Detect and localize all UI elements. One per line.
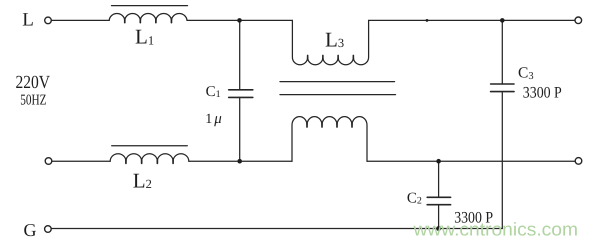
svg-text:1μ: 1μ: [205, 111, 222, 127]
svg-text:50HZ: 50HZ: [20, 93, 46, 109]
svg-text:www.cntronics.com: www.cntronics.com: [412, 218, 578, 239]
svg-text:L1: L1: [135, 25, 154, 49]
svg-text:L3: L3: [325, 27, 344, 51]
svg-text:C2: C2: [407, 190, 422, 206]
svg-text:G: G: [24, 220, 37, 240]
svg-text:C3: C3: [518, 65, 534, 83]
svg-text:C1: C1: [206, 84, 221, 100]
svg-text:L: L: [22, 10, 34, 31]
svg-text:3300 P: 3300 P: [523, 84, 562, 101]
svg-text:220V: 220V: [16, 73, 51, 93]
svg-text:L2: L2: [133, 168, 152, 192]
